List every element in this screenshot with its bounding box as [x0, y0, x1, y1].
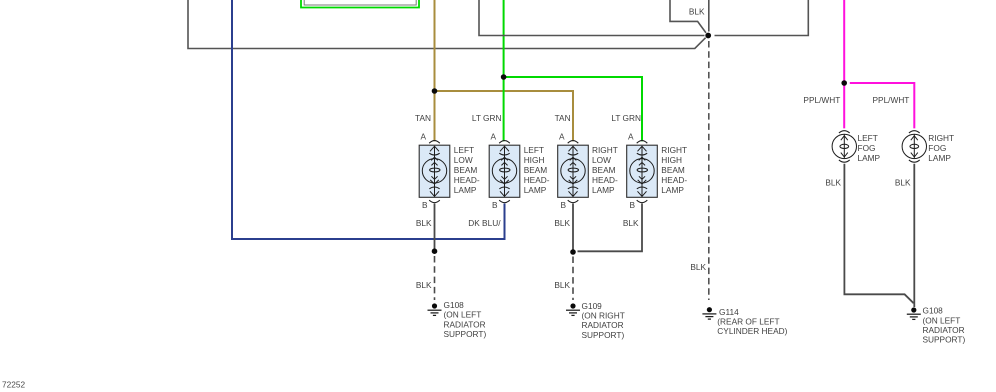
- svg-text:G114: G114: [719, 307, 739, 317]
- svg-text:BLK: BLK: [825, 178, 841, 188]
- wire TAN branch to right low beam headlamp pin A: [435, 91, 574, 141]
- svg-text:B: B: [492, 200, 498, 210]
- svg-text:TAN: TAN: [555, 113, 571, 123]
- wire LT GRN branch to right high beam headlamp pin A: [504, 77, 642, 141]
- svg-text:LEFT: LEFT: [858, 133, 878, 143]
- svg-text:LT GRN: LT GRN: [611, 113, 641, 123]
- svg-text:HEAD-: HEAD-: [454, 175, 480, 185]
- svg-text:B: B: [422, 200, 428, 210]
- splice lamp3/lamp4 BLK: [570, 249, 576, 255]
- svg-text:A: A: [559, 131, 565, 141]
- wire DK BLU/WHT: left vertical, bottom run, up to lamp2 pin B: [232, 0, 505, 239]
- wire TAN from top to left low beam headlamp pin A: [434, 0, 436, 141]
- svg-text:RIGHT: RIGHT: [592, 145, 618, 155]
- wire BLK dashed from junction down to G114: [708, 41, 710, 300]
- wire BLK dashed to G109: [572, 257, 574, 301]
- ground G108 (on left radiator support): [428, 303, 442, 315]
- svg-text:BLK: BLK: [895, 178, 911, 188]
- svg-text:BEAM: BEAM: [524, 165, 548, 175]
- wire LT GRN from top to left high beam headlamp pin A: [503, 0, 505, 141]
- wire BLK lamp4 pin B down and left to splice: [578, 204, 643, 252]
- splice lamp1 BLK: [432, 248, 438, 254]
- svg-text:HEAD-: HEAD-: [661, 175, 687, 185]
- svg-text:72252: 72252: [2, 379, 25, 389]
- svg-text:LEFT: LEFT: [524, 145, 544, 155]
- wire PPL/WHT from top to left fog lamp: [843, 0, 845, 128]
- wire BLK lamp3 pin B down: [572, 204, 574, 253]
- svg-text:G109: G109: [582, 301, 603, 311]
- svg-text:RADIATOR: RADIATOR: [582, 320, 624, 330]
- component box (green outline, top): [301, 0, 419, 8]
- svg-text:SUPPORT): SUPPORT): [582, 330, 625, 340]
- splice LT GRN: [501, 74, 507, 80]
- wire BLK right fog lamp down to ground: [913, 164, 915, 307]
- svg-text:FOG: FOG: [928, 143, 946, 153]
- svg-text:SUPPORT): SUPPORT): [923, 335, 966, 345]
- splice PPL/WHT: [841, 80, 847, 86]
- svg-text:TAN: TAN: [415, 113, 431, 123]
- wire BLK left fog lamp down and right to ground: [844, 164, 913, 303]
- svg-text:BEAM: BEAM: [592, 165, 616, 175]
- inner gray box (top): [304, 0, 416, 5]
- svg-text:RIGHT: RIGHT: [928, 133, 954, 143]
- svg-text:BLK: BLK: [689, 7, 705, 17]
- svg-text:A: A: [628, 131, 634, 141]
- svg-text:LOW: LOW: [592, 155, 611, 165]
- svg-text:(ON LEFT: (ON LEFT: [923, 315, 961, 325]
- svg-text:A: A: [421, 131, 427, 141]
- left fog lamp: [832, 131, 856, 163]
- svg-text:HIGH: HIGH: [661, 155, 682, 165]
- svg-text:LAMP: LAMP: [858, 153, 881, 163]
- svg-text:(ON LEFT: (ON LEFT: [444, 310, 482, 320]
- wire BLK lamp1 pin B down: [434, 204, 436, 252]
- ground G108 fog lamps (on left radiator support): [907, 307, 921, 319]
- splice TAN: [432, 88, 438, 94]
- svg-text:B: B: [561, 200, 567, 210]
- svg-text:PPL/WHT: PPL/WHT: [803, 95, 840, 105]
- connector box (top left, cut off at top): [188, 0, 706, 49]
- junction of BLK ground wires: [705, 33, 711, 39]
- wire PPL/WHT branch to right fog lamp: [850, 83, 915, 128]
- svg-text:CYLINDER HEAD): CYLINDER HEAD): [717, 326, 787, 336]
- svg-text:LEFT: LEFT: [454, 145, 474, 155]
- svg-text:(ON RIGHT: (ON RIGHT: [582, 311, 625, 321]
- wire BLK from top at x709 to ground junction: [708, 0, 710, 32]
- svg-text:BEAM: BEAM: [661, 165, 685, 175]
- wire BLK from top at x479 to ground junction: [479, 0, 705, 36]
- svg-text:LT GRN: LT GRN: [472, 113, 502, 123]
- svg-text:FOG: FOG: [858, 143, 876, 153]
- svg-text:RIGHT: RIGHT: [661, 145, 687, 155]
- wire BLK dashed to G108: [434, 256, 436, 300]
- svg-text:G108: G108: [444, 300, 465, 310]
- svg-text:B: B: [630, 200, 636, 210]
- wire BLK from top at x670 into ground junction: [670, 0, 706, 33]
- svg-text:DK BLU/: DK BLU/: [468, 218, 501, 228]
- svg-text:HEAD-: HEAD-: [592, 175, 618, 185]
- svg-text:BLK: BLK: [416, 280, 432, 290]
- svg-text:HEAD-: HEAD-: [524, 175, 550, 185]
- svg-text:PPL/WHT: PPL/WHT: [873, 95, 910, 105]
- svg-text:LAMP: LAMP: [592, 185, 615, 195]
- svg-text:RADIATOR: RADIATOR: [444, 319, 486, 329]
- svg-text:BEAM: BEAM: [454, 165, 478, 175]
- svg-text:LOW: LOW: [454, 155, 473, 165]
- headlamp left high beam: [489, 141, 520, 203]
- svg-text:BLK: BLK: [554, 218, 570, 228]
- svg-text:LAMP: LAMP: [454, 185, 477, 195]
- svg-text:RADIATOR: RADIATOR: [923, 325, 965, 335]
- svg-text:G108: G108: [923, 305, 944, 315]
- headlamp right low beam: [558, 141, 589, 203]
- ground G114 (rear of left cylinder head): [702, 307, 716, 319]
- svg-text:BLK: BLK: [416, 218, 432, 228]
- svg-text:LAMP: LAMP: [524, 185, 547, 195]
- headlamp left low beam: [419, 141, 450, 203]
- wire BLK right branch up at x808: [715, 0, 809, 36]
- svg-text:SUPPORT): SUPPORT): [444, 329, 487, 339]
- svg-text:A: A: [491, 131, 497, 141]
- svg-text:(REAR OF LEFT: (REAR OF LEFT: [717, 317, 779, 327]
- svg-text:HIGH: HIGH: [524, 155, 545, 165]
- headlamp right high beam: [627, 141, 658, 203]
- svg-text:BLK: BLK: [623, 218, 639, 228]
- svg-text:LAMP: LAMP: [661, 185, 684, 195]
- right fog lamp: [902, 131, 926, 163]
- svg-text:LAMP: LAMP: [928, 153, 951, 163]
- svg-text:BLK: BLK: [690, 262, 706, 272]
- ground G109 (on right radiator support): [566, 303, 580, 315]
- svg-text:BLK: BLK: [554, 280, 570, 290]
